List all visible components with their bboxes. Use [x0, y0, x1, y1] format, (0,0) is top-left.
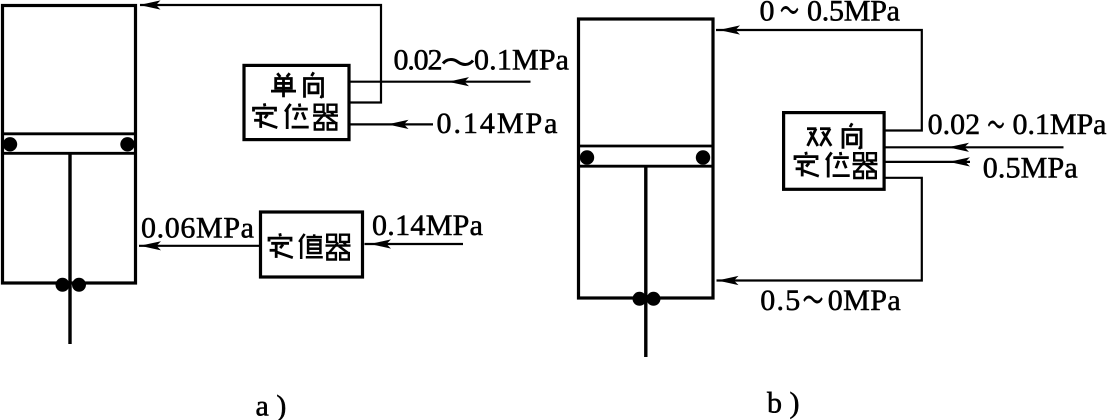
svg-text:0.06MPa: 0.06MPa	[141, 212, 254, 245]
svg-text:0.14MPa: 0.14MPa	[437, 107, 558, 140]
svg-text:0.5: 0.5	[760, 284, 800, 317]
svg-text:0: 0	[760, 0, 775, 28]
svg-text:0.1MPa: 0.1MPa	[474, 44, 569, 77]
svg-text:0.02: 0.02	[394, 44, 443, 77]
svg-text:0.5MPa: 0.5MPa	[983, 152, 1078, 185]
svg-text:0.14MPa: 0.14MPa	[372, 209, 483, 242]
svg-text:a ): a )	[256, 390, 287, 420]
svg-text:b ): b )	[767, 387, 800, 420]
svg-text:0MPa: 0MPa	[828, 284, 901, 317]
svg-text:0.02: 0.02	[928, 108, 981, 141]
svg-text:0.1MPa: 0.1MPa	[1013, 108, 1107, 141]
svg-text:0.5MPa: 0.5MPa	[807, 0, 900, 28]
